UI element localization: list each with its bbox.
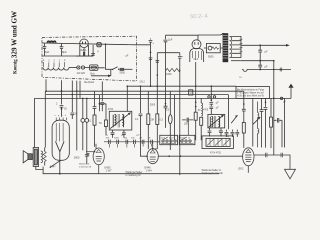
resistor oval x171.8 [169,91,171,114]
component body at 242.3,122.5 [242,123,245,134]
choke L-net [47,41,56,43]
component body at 52.1,120.2 [52,120,69,160]
svg-text:E447: E447 [50,166,56,169]
osc coil windings x257.6 [257,102,259,148]
vertical x274 long [273,61,275,155]
wire segment from 201.2,103 [201,103,202,116]
wire segment from 265.5,152.8 [266,153,283,157]
svg-text:110 220: 110 220 [77,72,86,75]
svg-text:5000: 5000 [150,105,156,107]
wire segment from 245.2,155 [245,155,251,162]
IF transformer 2 box [208,114,225,128]
wire segment from 47,43 [47,41,56,43]
col x261 cap 100 [260,98,264,147]
bus gnd y98.4 [34,97,291,99]
junction at 180.4,156.2 [180,155,182,157]
bottom rail left [43,167,219,174]
svg-text:EK2: EK2 [239,167,244,171]
svg-text:in Bereich M: in Bereich M [79,165,91,168]
wire segment from 189.6,91.2 [190,91,192,93]
wire segment from 237.3,129.6 [235,130,239,137]
caption text right [237,88,265,97]
junction at 273.8,98.4 [273,98,275,100]
junction at 260.2,45.3 [259,44,261,46]
wire segment from 245.9,152.4 [246,149,251,152]
component body at 194.2,112.2 [194,112,197,120]
wire segment from 118.1,114 [118,114,119,127]
wire segment from 35.3,149.2 [35,149,37,165]
matching coil wavy [41,151,43,163]
wire segment from 96.3,152.5 [96,150,101,153]
svg-text:CL4: CL4 [194,58,199,61]
wire segment from 214.6,116 [215,116,216,128]
col x245.5 [242,91,246,122]
junction at 50.3,167.2 [50,167,51,168]
wire segment from 232.5,129.6 [231,130,235,137]
svg-text:8µF: 8µF [45,50,50,54]
junction at 61.5,91.2 [61,90,63,92]
tube V2 [86,144,104,174]
elyt cap on x180 [178,53,182,175]
tube envelope [91,66,97,69]
contact circle at 182,141 [181,140,183,142]
wire segment from 189.8,62 [190,49,204,63]
wire segment from 284.5,169.3 [285,169,296,179]
component body at 104.5,120 [105,120,108,127]
wire row y52.7 [157,52,179,54]
bus +B y91.2 [46,90,244,92]
wave switch cluster bottom [160,135,178,144]
svg-text:8µF: 8µF [62,50,67,54]
svg-text:Bei Wechselstrom in Folge: Bei Wechselstrom in Folge [237,88,265,91]
wire segment from 86,151.7 [86,151,94,153]
contact circle at 82.8,120.4 [81,119,85,123]
wire segment from 130.6,112.6 [128,113,131,115]
wire segment from 97.4,43.2 [97,43,100,46]
speaker feed wire with arrow [241,44,287,46]
vertical x76.2 [76,91,78,150]
voltage selector [69,67,77,69]
wire segment from 148.3,124.5 [147,125,149,149]
junction at 169.2,156.2 [168,155,170,157]
svg-text:Sich.: Sich. [90,72,96,75]
svg-text:2µF: 2µF [168,39,173,42]
wire segment from 280.2,67.6 [280,68,282,72]
svg-text:1 W7: 1 W7 [106,168,113,172]
fuse Si [85,67,90,69]
heater winding [43,68,69,71]
wire segment from 96,143.8 [96,144,99,174]
wire segment from 148.3,91.2 [147,91,149,114]
wire segment from 243.8,133 [243,133,245,148]
wire segment from 192.7,51 [193,51,202,60]
junction at 195.7,106.6 [195,106,197,108]
IF transformer 1 box [109,111,132,130]
bus A y86 [127,85,236,87]
cap horizontal x279 [274,118,282,147]
svg-text:h: h [65,115,66,117]
wire segment from 221,127.9 [219,128,223,137]
wire segment from 257.6,112.6 [258,113,259,118]
wire to down arrow [254,155,290,169]
wire segment from 123.9,130 [122,130,126,138]
wire segment from 122.2,114.5 [122,115,124,128]
junction at 140.5,86.2 [140,85,142,87]
svg-text:µµF: µµF [136,134,141,136]
caption box [236,87,270,99]
wave switch lever [50,160,60,167]
svg-text:5Ω: 5Ω [239,77,242,79]
resistor zigzag vertical [43,152,46,162]
cap at x163.5 low [164,104,168,128]
wire segment from 170.3,123.8 [169,124,171,150]
junction at 46,91.2 [45,90,47,92]
svg-text:Netzteil: Netzteil [84,80,94,84]
wire segment from 208.6,127.2 [209,115,224,127]
component body at 206,138.4 [206,138,230,146]
contact circle at 86.8,120.4 [85,119,89,123]
wire row y60.7 [241,60,274,62]
junction at 147.1,156.2 [146,155,148,157]
wire segment from 94.5,125.2 [94,125,96,147]
svg-text:µµF: µµF [121,134,126,136]
svg-text:5000: 5000 [114,138,120,140]
svg-text:µF: µF [265,51,268,54]
stacked caps x211.3 [209,86,213,114]
junction at 243.8,104 [243,103,245,105]
cap below junction [258,45,262,60]
coupling cap horizontal [182,118,193,123]
junction at 76.8,91.2 [76,90,78,92]
switch mains [112,69,113,70]
svg-text:4705: 4705 [203,110,209,112]
wire segment from 155.4,60.5 [155,61,159,63]
svg-text:k: k [62,115,63,117]
wire segment from 110.2,128.6 [110,113,130,129]
wire segment from 109.4,144 [109,144,151,148]
svg-text:Wellensch.: Wellensch. [79,164,90,166]
resistor zigzag horizontal [166,68,180,71]
bottom cluster under IF1 [104,141,160,143]
wire segment from 157.3,124.5 [153,125,158,149]
junction at 59.8,173.7 [59,173,61,175]
svg-text:AZ 1: AZ 1 [80,48,87,52]
cap on x102 [100,103,104,112]
wire segment from 223,35.5 [223,36,228,59]
junction at 211.3,100.2 [211,99,213,101]
jacks on gnd bus [208,96,210,98]
tube envelope [93,148,104,165]
bus heater y94.6 [46,94,229,96]
wire segment from 271,127.1 [270,127,272,148]
svg-text:H 30 aus dem Werk mit W: H 30 aus dem Werk mit W [237,94,265,97]
tube envelope [169,115,173,124]
svg-text:5000: 5000 [74,157,80,160]
winding + resistor x201 left of IF2 [200,98,202,103]
wire segment from 95.7,156.5 [96,157,102,162]
vertical x150.5 with elyt caps [149,39,153,86]
contact circle at 210,48.1 [208,46,212,50]
cap lower x84 [85,154,89,164]
wire anode top [166,35,199,40]
component body at 179.3,135.3 [179,135,195,144]
wire segment from 56.2,123 [56,123,63,141]
svg-text:5000: 5000 [120,71,126,74]
junction at 260.2,69.5 [259,69,261,71]
nested tuning box [202,136,233,149]
output tube CL4 [192,40,201,49]
svg-text:in Stellung M: in Stellung M [126,173,141,177]
resistor under AZ1 [83,52,85,56]
junction at 273.8,60.7 [273,60,275,62]
wire segment from 237.5,115.2 [235,115,238,117]
column x195.7 [195,62,197,112]
wire segment from 212,48.1 [212,47,219,49]
wire segment from 112.6,69.4 [113,67,118,70]
vertical x127.3 [126,86,128,111]
wire segment from 59.8,151.7 [59,152,61,174]
junction at 127.3,86.2 [127,85,129,87]
wire segment from 241,36 [240,36,242,58]
pot arrow right of IF2 [229,95,238,130]
jack box on bus1 [189,90,193,95]
lamp dial [97,43,102,47]
capacitor on node x163 [163,35,167,103]
svg-text:Stellung Kurzwelle: Stellung Kurzwelle [202,171,224,175]
wire segment from 55.5,141.4 [56,141,65,151]
wire segment from 195.7,120.2 [195,120,197,140]
junction at 195.7,102.3 [195,102,197,104]
wire segment from 47.5,41.2 [47,40,56,43]
wire segment from 90.7,67.6 [91,67,97,69]
junction at 195.7,86.2 [195,85,197,87]
vertical x284.5 [284,98,286,147]
wire segment from 43.5,62 [44,62,65,67]
caps below IF1 [111,130,115,138]
svg-text:5012: 5012 [140,81,146,84]
junction at 94.5,151.7 [94,151,96,153]
capacitor elyt C1 [43,43,47,56]
speaker transformer [33,148,38,167]
junction at 72.3,94.6 [72,94,74,96]
wire segment from 163,139.9 [163,137,187,140]
wire segment from 203.8,48 [204,47,223,49]
tube V4 [243,148,296,179]
wire segment from 226.5,129.6 [225,130,229,137]
taps [231,37,242,58]
wire segment from 84.1,47.8 [83,48,85,52]
wire to transformer top [198,34,224,36]
contact circle at 163,141 [162,140,164,142]
junction at 165.5,103.5 [165,103,167,105]
wire segment from 207,145.6 [207,139,230,145]
top pins [56,118,66,121]
svg-text:+: + [43,45,45,49]
pickup connector + up arrow [290,88,292,99]
wire segment from 108.5,139.6 [109,140,153,144]
junction at 157.3,86.2 [157,85,159,87]
wire segment from 188.3,122.3 [187,122,189,135]
wire segment from 165.5,70 [166,69,180,71]
vertical x174.6 [174,95,176,140]
wire to switch [98,44,112,69]
wire segment from 218.3,116.4 [218,116,220,127]
feeds from power box [62,80,103,101]
svg-text:g: g [58,115,59,117]
labels right top [153,39,287,104]
antenna column caps [60,91,64,117]
chokes small circles [83,98,87,118]
wire segment from 106,126.5 [100,104,107,136]
mains lead arrow [91,70,111,76]
wire segment from 82.5,41.5 [83,42,86,44]
secondary winding arcs [230,37,232,58]
wire segment from 152.7,141.2 [140,141,243,156]
wire segment from 223.6,115 [221,115,224,117]
speaker cone [23,151,28,163]
svg-text:4704: 4704 [108,108,114,111]
wire lower rail inside box [42,55,93,57]
wire segment from 91.2,53.6 [91,54,95,56]
svg-text:+: + [60,45,62,49]
pot arrow [253,98,261,146]
grid network box [206,44,220,53]
cap between rows [258,61,262,70]
wire segment from 286,44 [286,44,290,47]
bottom caps under IF2 [208,128,212,137]
bus left drops to speaker [34,79,46,147]
wire segment from 194.8,42.3 [195,42,198,44]
tiny labels power box [43,45,145,85]
wire segment from 76,56.1 [76,55,93,57]
tube envelope [243,148,254,166]
junction at 150.5,86.2 [150,85,152,87]
tube V3 [140,141,243,164]
wire segment from 82.8,122.3 [83,122,87,154]
wire HT top rail [42,43,151,45]
wire segment from 257.6,128.6 [258,129,259,134]
contact circle at 281.6,98.4 [280,97,282,99]
resistor x106 [105,104,107,120]
component body at 146.8,113.9 [147,114,150,125]
wire segment from 44.7,147.5 [44,148,46,166]
rectifier U AZ1 [80,39,89,48]
svg-text:v. 40 gegen Masse ins auf: v. 40 gegen Masse ins auf [237,92,264,94]
wire segment from 35.8,166.5 [36,167,43,170]
wire segment from 149.7,157 [150,157,156,161]
wire segment from 108,74.5 [108,75,112,78]
contact circle at 78.4,67.5 [77,66,80,69]
component body at 89.5,64.9 [90,65,98,70]
component body at 155.8,113.9 [156,114,159,125]
component body at 269.5,117.1 [270,117,273,127]
svg-text:1 W4: 1 W4 [146,168,153,172]
resistor left of V2 [87,154,90,156]
svg-text:µF: µF [265,65,268,68]
column x94.5 : cap + resistor [93,91,97,115]
wire segment from 288.4,87.8 [288,84,293,88]
col x266 [264,98,268,147]
wire segment from 114.5,114.5 [113,115,116,128]
svg-text:5000: 5000 [208,56,214,59]
tube envelope [147,149,158,164]
junction at 82.8,98.4 [82,98,84,100]
wire segment from 201.2,125.3 [200,125,202,140]
wire segment from 210,138.4 [210,138,226,146]
power supply box (dash-dot) [42,36,137,81]
component body at 199.7,117.3 [200,117,203,125]
svg-text:4704 4705: 4704 4705 [210,153,222,155]
component body at 34.4,149.2 [34,149,37,165]
columns x140.5 148 157 [139,86,143,156]
wire segment from 260.2,117.1 [258,117,261,119]
junction at 157.3,75 [157,74,159,76]
output transformer primary (dark bar) [223,33,229,62]
wire segment from 248.3,165.8 [247,166,249,173]
resistor x271 [270,98,272,117]
junction at 152.7,148.7 [152,148,154,150]
junction at 99.5,103.8 [99,103,101,105]
junction at 118.6,69.3 [118,69,119,70]
svg-text:50 2- 4: 50 2- 4 [190,14,209,21]
junction at 273.8,69.5 [273,69,275,71]
wire segment from 239.5,39.2 [240,39,243,52]
svg-text:1000: 1000 [166,73,172,76]
wire segment from 157.3,52.7 [156,53,158,114]
wire segment from 79.8,43.3 [80,43,93,56]
junction at 150.5,52.3 [150,52,152,54]
cap interference [120,68,125,71]
wire segment from 150.3,153 [150,150,155,153]
junction at 260.2,60.7 [259,60,261,62]
junction at 265.5,102.2 [265,101,267,103]
junction at 211.3,86.2 [211,85,213,87]
wire row y69.5 with dip [242,70,291,72]
wire segment from 124.2,69.3 [124,68,132,70]
svg-text:2M: 2M [151,119,154,122]
junction at 61.5,108.8 [61,108,63,110]
cap x73 [70,95,74,119]
wire segment from 211.4,116.4 [210,116,213,127]
junction at 78.4,67.5 [77,66,80,69]
component body at 27.9,153.8 [28,154,32,160]
component body at 93,115 [93,115,96,125]
wire segment from 231,60.7 [231,60,241,62]
capacitor elyt C2 [60,43,64,56]
title Koenig 329 W und GW [11,11,19,74]
junction at 105.5,44.2 [105,43,107,45]
column x99.5 [99,95,101,112]
